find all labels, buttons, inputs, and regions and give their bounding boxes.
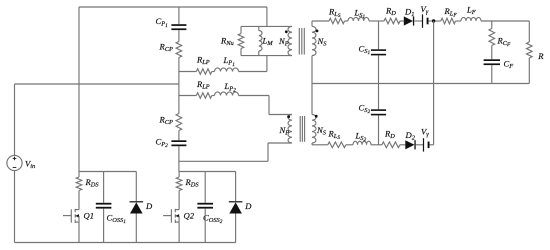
svg-text:RNu: RNu [220,36,234,48]
resistor R_Nu [220,26,244,55]
svg-text:CS2: CS2 [359,103,371,116]
svg-text:Q2: Q2 [184,211,195,221]
wire [178,172,180,178]
svg-text:LP2: LP2 [224,81,237,94]
svg-text:LS1: LS1 [354,8,366,21]
wire [378,21,380,49]
svg-text:NP: NP [279,125,290,137]
svg-text:RD: RD [385,5,396,16]
wire [179,160,268,162]
svg-text:Vγ: Vγ [421,126,429,138]
svg-text:RCF: RCF [497,35,512,48]
svg-text:NP: NP [278,36,289,48]
svg-text:RLF: RLF [444,6,458,19]
wire [179,71,197,73]
svg-text:CF: CF [504,59,514,71]
wire [178,7,180,24]
wire [268,142,292,144]
transformer T1 primary winding N_P [278,26,292,55]
wire [266,7,268,26]
wire [346,144,353,146]
wire [241,25,292,27]
wire [491,46,493,60]
svg-text:Vγ: Vγ [421,4,429,16]
resistor R_LP (branch 1) [196,54,212,74]
wire [312,83,529,85]
wire [78,7,80,172]
wire [491,65,493,83]
resistor R_LF [441,6,457,24]
svg-text:R: R [537,51,544,61]
resistor R_DS (Q1) [76,177,99,191]
polarity dot N_P (T2) [287,115,290,118]
wire [178,30,180,41]
wire [491,21,493,29]
wire [400,144,405,146]
wire [14,171,16,243]
diode D_2 [405,130,416,149]
capacitor C_OSS1 [96,203,126,225]
svg-text:LP1: LP1 [223,55,236,68]
svg-text:RD: RD [384,128,395,140]
inductor L_S1 [348,8,369,22]
junction dot (output node) [432,19,435,22]
resistor R_CP (upper) [159,42,182,58]
svg-text:CP1: CP1 [156,16,169,29]
wire [239,71,267,73]
wire [79,171,136,173]
wire [135,172,137,202]
wire [414,20,422,22]
wire [78,191,80,210]
wire [430,144,434,146]
wire [14,84,16,155]
wire [135,214,137,243]
wire [481,20,529,22]
wire [204,172,206,203]
capacitor C_S2 [359,103,387,116]
svg-text:COSS1: COSS1 [107,213,127,226]
svg-text:D1: D1 [404,7,414,19]
wire [235,172,237,202]
resistor R_CF [489,29,511,48]
svg-text:NS: NS [317,36,328,48]
capacitor C_P1 [156,16,187,30]
svg-text:RLS: RLS [328,6,341,19]
mosfet Q2 [163,209,195,243]
wire [371,144,382,146]
transformer T2 primary winding N_P [279,115,293,144]
diode D_1 [404,7,415,26]
svg-text:RLP: RLP [196,79,210,91]
wire [311,21,313,26]
body diode D (Q2) [229,201,253,214]
voltage source V_gamma (upper) [421,4,429,28]
voltage source V_in [7,155,35,170]
wire [528,58,530,84]
wire [79,6,267,8]
wire [267,143,269,161]
wire [378,115,380,144]
wire [178,146,180,171]
svg-text:CP2: CP2 [156,136,169,149]
resistor R_D (secondary 2) [382,128,400,147]
wire [212,71,215,73]
wire [312,144,328,146]
svg-text:LF: LF [466,5,476,17]
inductor L_P1 [215,55,239,71]
svg-text:D: D [244,201,252,211]
wire [241,55,292,57]
svg-text:COSS2: COSS2 [203,213,223,226]
wire [212,95,215,97]
wire [311,56,313,84]
inductor L_P2 [215,81,239,96]
wire [268,96,270,115]
resistor R_DS (Q2) [176,177,199,191]
svg-text:CS1: CS1 [359,43,371,56]
wire [178,131,180,141]
capacitor C_P2 [156,136,187,149]
wire [345,20,349,22]
wire [178,191,180,210]
wire [266,56,268,72]
polarity dot N_P (T1) [285,30,288,33]
wire [235,214,237,243]
resistor R_D (secondary 1) [384,5,400,24]
wire [433,21,435,145]
capacitor C_S1 [359,43,387,56]
wire [178,58,180,114]
transformer T2 secondary winding N_S [312,115,327,144]
wire [15,242,236,244]
inductor L_S2 [353,131,371,145]
wire [103,209,105,243]
wire [103,172,105,203]
wire [311,84,313,115]
resistor R (load) [527,42,545,61]
svg-text:LM: LM [262,35,274,47]
wire [204,209,206,243]
svg-text:RDS: RDS [85,177,100,189]
resistor R_LS (secondary 1) [328,6,345,24]
svg-text:D: D [145,201,153,211]
wire [179,95,197,97]
capacitor C_F [484,59,514,71]
svg-text:NS: NS [316,125,327,137]
svg-text:RLP: RLP [196,54,210,66]
resistor R_LP (branch 2) [196,79,212,98]
transformer T1 secondary winding N_S [312,26,327,55]
wire [269,114,292,116]
wire [528,21,530,42]
wire [78,172,80,178]
wire [239,95,270,97]
wire [15,83,179,85]
inductor L_M [259,26,273,55]
transformer T2 core [300,116,304,142]
wire [369,20,384,22]
wire [429,20,441,22]
svg-text:Vin: Vin [25,159,35,171]
resistor R_LS (secondary 2) [328,128,346,147]
transformer T1 core [299,28,304,55]
wire [400,20,404,22]
polarity dot N_S (T1) [316,30,319,33]
inductor L_F [461,5,481,21]
wire [378,55,380,109]
capacitor C_OSS2 [197,203,222,225]
svg-text:RCP: RCP [159,115,174,127]
svg-text:RLS: RLS [328,128,341,141]
svg-text:Q1: Q1 [84,211,95,221]
wire [312,20,329,22]
wire [416,144,423,146]
svg-text:RCP: RCP [159,42,174,54]
body diode D (Q1) [130,201,154,214]
polarity dot N_S (T2) [315,115,318,118]
resistor R_CP (lower) [159,114,182,131]
wire [311,143,313,145]
wire [456,20,462,22]
voltage source V_gamma (lower) [421,126,430,151]
svg-text:D2: D2 [405,130,416,142]
mosfet Q1 [63,209,94,243]
svg-text:RDS: RDS [185,177,200,189]
wire [179,171,236,173]
